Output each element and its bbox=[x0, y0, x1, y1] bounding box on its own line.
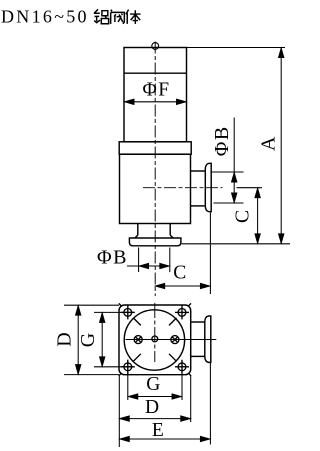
ext line side flange face down bbox=[209, 213, 211, 295]
svg-text:D: D bbox=[145, 397, 159, 418]
svg-text:A: A bbox=[258, 136, 280, 151]
side port neck top bbox=[191, 170, 206, 172]
cylinder cap line bbox=[124, 72, 187, 74]
bottom neck flare left bbox=[135, 235, 138, 238]
svg-text:D: D bbox=[54, 332, 76, 346]
hanzi 阀 bbox=[111, 10, 125, 24]
extension line cylinder top to dim A bbox=[187, 47, 286, 49]
side flange bbox=[205, 163, 211, 211]
dim line PhiB side bbox=[233, 118, 235, 204]
bolt hole bottom-left bbox=[119, 354, 141, 376]
svg-text:DN16~50: DN16~50 bbox=[1, 7, 89, 27]
ext line D left bottom bbox=[64, 374, 119, 376]
dim line G left bbox=[101, 312, 103, 366]
dim line C right bbox=[257, 188, 259, 244]
ext line G left bottom bbox=[94, 366, 135, 368]
ext line bottom PhiB left bbox=[138, 248, 140, 273]
bottom neck right bbox=[169, 224, 171, 236]
square flange bbox=[119, 305, 191, 375]
hanzi 体 bbox=[126, 10, 141, 24]
side port neck bottom bbox=[191, 205, 205, 207]
svg-text:G: G bbox=[77, 333, 99, 347]
dim line D left bbox=[77, 305, 79, 374]
dim line G bottom bbox=[128, 396, 182, 398]
bottom face extension line bbox=[182, 243, 291, 245]
svg-text:G: G bbox=[146, 374, 160, 395]
hanzi 铝 bbox=[94, 9, 109, 23]
bolt hole top-right bbox=[169, 303, 191, 325]
centerline extension to dim C bbox=[237, 187, 263, 189]
dim line A bbox=[280, 48, 282, 244]
ext line G left top bbox=[94, 311, 135, 313]
top fitting circle bbox=[152, 43, 159, 50]
valve body bbox=[120, 154, 191, 223]
dim line D bottom bbox=[119, 418, 190, 420]
dim line PhiF bbox=[124, 101, 187, 103]
bottom view side flange bbox=[205, 316, 211, 362]
ext line G bottom left bbox=[127, 360, 129, 400]
upper flange band bbox=[119, 142, 191, 154]
big flange circle bbox=[124, 310, 184, 370]
ext line side PhiB top bbox=[212, 171, 244, 173]
ext line G bottom right bbox=[181, 360, 183, 400]
svg-text:ΦB: ΦB bbox=[97, 247, 128, 269]
svg-text:C: C bbox=[173, 263, 186, 284]
ext line side PhiB bottom bbox=[214, 202, 244, 204]
bottom neck flare right bbox=[170, 235, 173, 238]
bottom flange bbox=[129, 238, 181, 246]
dim line PhiB bottom bbox=[127, 265, 170, 267]
svg-text:C: C bbox=[233, 210, 254, 223]
svg-text:E: E bbox=[152, 420, 164, 441]
bolt hole top-left bbox=[119, 303, 141, 325]
pin circle left bbox=[134, 336, 142, 344]
bolt hole bottom-right bbox=[169, 354, 191, 376]
pin circle right bbox=[171, 336, 179, 344]
bottom view side port neck top bbox=[191, 321, 205, 323]
horizontal centerline body/side port bbox=[143, 187, 223, 189]
bottom neck left bbox=[137, 224, 139, 236]
vertical centerline main view bbox=[154, 42, 156, 297]
center hole bbox=[152, 336, 158, 342]
bottom view side port neck bottom bbox=[191, 355, 205, 357]
dim line C bottom bbox=[155, 285, 211, 287]
actuator cylinder bbox=[124, 48, 187, 142]
bottom view vertical centerline bbox=[154, 303, 156, 362]
svg-text:ΦB: ΦB bbox=[211, 125, 233, 156]
ext line D bottom left / E left bbox=[118, 375, 120, 447]
svg-text:ΦF: ΦF bbox=[142, 80, 170, 101]
ext line bottom PhiB right bbox=[169, 248, 171, 273]
ext line D bottom right bbox=[190, 375, 192, 422]
dim line E bottom bbox=[119, 438, 210, 440]
ext line D left top bbox=[64, 304, 119, 306]
bottom view horizontal centerline bbox=[126, 339, 217, 341]
ext line E right bbox=[209, 363, 211, 445]
